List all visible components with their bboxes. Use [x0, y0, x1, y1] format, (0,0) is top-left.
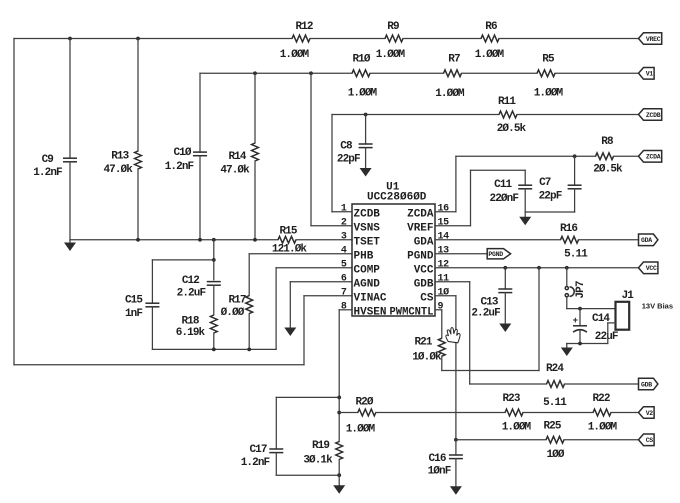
svg-text:1ØnF: 1ØnF: [428, 466, 451, 478]
wire AGND drop: [289, 282, 291, 328]
svg-text:ZCDA: ZCDA: [646, 154, 661, 161]
wire VSNS pin row: [311, 225, 352, 227]
svg-text:R25: R25: [543, 421, 561, 433]
svg-text:C1Ø: C1Ø: [173, 147, 191, 159]
svg-text:JP7: JP7: [575, 281, 587, 298]
net flag V1: [639, 68, 655, 80]
svg-text:PGND: PGND: [407, 251, 434, 263]
svg-text:GDB: GDB: [641, 381, 652, 388]
wire ZCDB row left: [332, 114, 499, 116]
svg-text:14: 14: [438, 232, 450, 243]
wire GDB row right: [565, 383, 639, 385]
junction C14 bottom: [578, 342, 582, 346]
junction C17 top link: [337, 396, 341, 400]
wire R21 top lead: [441, 310, 443, 338]
capacitor C10: [165, 147, 207, 173]
resistor R6: [475, 21, 505, 61]
svg-text:1: 1: [341, 204, 347, 215]
wire CS row right: [564, 439, 639, 441]
svg-text:GDB: GDB: [414, 279, 434, 291]
resistor R22: [588, 393, 618, 434]
wire VINAC pin row: [304, 295, 352, 297]
svg-text:2Ø.5k: 2Ø.5k: [593, 164, 623, 176]
wire C10 top lead: [199, 73, 201, 152]
wire VREC row R6-flag: [499, 38, 639, 40]
wire GDB drop: [469, 282, 471, 384]
svg-text:1.ØØM: 1.ØØM: [475, 49, 505, 61]
svg-text:2: 2: [341, 218, 347, 229]
svg-text:VREC: VREC: [646, 36, 661, 43]
svg-text:R6: R6: [485, 21, 497, 33]
wire ZCDA row right: [614, 155, 639, 157]
net flag GDB: [639, 378, 658, 390]
wire ZCDA pin stub: [435, 211, 456, 213]
resistor R15: [272, 226, 308, 256]
svg-text:C9: C9: [42, 154, 54, 166]
wire C9 top lead: [69, 39, 71, 159]
wire PWMCNTL pin stub: [435, 309, 442, 311]
resistor R11: [497, 96, 527, 135]
wire C15 top lead: [151, 260, 153, 303]
svg-text:1.ØØM: 1.ØØM: [280, 49, 310, 61]
ground below C11: [519, 212, 531, 225]
svg-text:1.ØØM: 1.ØØM: [376, 49, 406, 61]
svg-text:ZCDB: ZCDB: [354, 209, 381, 221]
wire V2 row R20 segment: [339, 412, 358, 414]
svg-text:5.11: 5.11: [564, 249, 588, 261]
svg-text:GDA: GDA: [641, 237, 652, 244]
svg-text:2Ø.5k: 2Ø.5k: [497, 123, 527, 135]
resistor R23: [502, 393, 532, 434]
wire C10 bottom lead: [199, 156, 201, 240]
junction R14 bottom: [253, 238, 257, 242]
svg-text:C16: C16: [428, 453, 445, 465]
svg-text:VINAC: VINAC: [354, 293, 387, 305]
ground AGND: [284, 328, 296, 337]
wire HVSEN drop upper: [338, 310, 340, 442]
svg-text:TSET: TSET: [354, 237, 381, 249]
wire COMP bottom row: [152, 348, 276, 350]
junction C12 branch top: [212, 238, 216, 242]
capacitor C13: [471, 289, 512, 320]
wire GDB pin stub: [435, 281, 470, 283]
svg-text:11: 11: [438, 274, 450, 285]
wire VREF top link: [471, 169, 526, 171]
resistor R9: [376, 21, 406, 61]
svg-text:J1: J1: [622, 290, 635, 302]
svg-text:47.Øk: 47.Øk: [103, 164, 133, 176]
wire C14 bottom lead: [579, 331, 581, 344]
resistor R16: [560, 223, 588, 261]
svg-text:R7: R7: [448, 54, 460, 66]
wire C14 top lead: [579, 309, 581, 326]
junction C9 top: [68, 37, 72, 41]
wire C14 bottom link: [567, 343, 608, 345]
svg-text:R21: R21: [414, 337, 432, 349]
svg-text:VCC: VCC: [646, 265, 657, 272]
svg-text:Ø.ØØ: Ø.ØØ: [221, 307, 245, 319]
svg-text:R22: R22: [592, 393, 609, 405]
svg-text:5.11: 5.11: [543, 397, 567, 409]
capacitor C9: [33, 154, 77, 179]
svg-text:R24: R24: [546, 363, 564, 375]
wire V2 row R23-R22: [523, 412, 593, 414]
svg-text:1.ØØM: 1.ØØM: [435, 88, 465, 100]
svg-text:R19: R19: [312, 440, 329, 452]
net flag ZCDA: [639, 151, 662, 163]
wire VREC row R9-R6: [403, 38, 481, 40]
capacitor C8: [337, 141, 373, 166]
wire R17 bottom lead: [248, 314, 250, 350]
ground below R19: [333, 475, 345, 494]
svg-text:22uF: 22uF: [595, 331, 618, 343]
connector J1: [616, 290, 635, 330]
svg-text:1.ØØM: 1.ØØM: [534, 88, 564, 100]
junction R13 top: [136, 37, 140, 41]
svg-text:1.ØØM: 1.ØØM: [502, 422, 532, 434]
capacitor C14 (polarized): [573, 313, 618, 343]
wire ZCDA riser: [455, 156, 457, 212]
wire COMP riser: [275, 268, 277, 350]
svg-text:R12: R12: [295, 21, 312, 33]
junction C13 top: [503, 266, 507, 270]
resistor R17: [221, 295, 253, 320]
svg-text:R9: R9: [387, 21, 399, 33]
wire R18 bottom lead: [213, 333, 215, 349]
wire CS row left: [456, 439, 546, 441]
junction R21 pullup top: [537, 266, 541, 270]
svg-text:1.2nF: 1.2nF: [33, 167, 62, 179]
wire C11 bottom lead: [524, 189, 526, 212]
wire R21 bottom lead: [441, 356, 443, 370]
svg-text:1.2nF: 1.2nF: [241, 457, 270, 469]
wire ground row: [70, 239, 278, 241]
svg-text:2.2uF: 2.2uF: [471, 308, 500, 320]
svg-text:5: 5: [341, 260, 347, 271]
net flag PGND: [487, 249, 510, 259]
svg-text:22pF: 22pF: [539, 190, 562, 202]
wire C15 top link: [152, 259, 213, 261]
svg-text:V2: V2: [646, 410, 654, 417]
svg-text:R17: R17: [228, 295, 245, 307]
wire C17 bottom lead: [275, 453, 277, 476]
wire C7 top lead: [574, 156, 576, 185]
wire V1 row R7-R5: [462, 72, 538, 74]
junction C7 top: [573, 154, 577, 158]
svg-text:R2Ø: R2Ø: [355, 397, 373, 409]
wire C8 branch: [365, 115, 367, 145]
wire R13 top lead: [137, 39, 139, 152]
svg-text:CS: CS: [420, 293, 434, 305]
svg-text:C12: C12: [182, 275, 199, 287]
capacitor C7: [539, 177, 582, 202]
wire CS pin stub: [435, 295, 456, 297]
wire VSNS riser: [310, 73, 312, 226]
svg-text:R16: R16: [560, 223, 577, 235]
svg-text:VREF: VREF: [407, 223, 433, 235]
wire R13 bottom lead: [137, 169, 139, 240]
wire C17 bottom link: [276, 474, 339, 476]
wire COMP pin row: [276, 267, 352, 269]
wire R14 top lead: [254, 73, 256, 143]
svg-text:8: 8: [341, 302, 347, 313]
svg-text:R18: R18: [181, 316, 199, 328]
wire VINAC riser: [303, 296, 305, 365]
svg-text:4: 4: [341, 246, 347, 257]
svg-text:9: 9: [438, 302, 444, 313]
resistor R19: [303, 440, 342, 467]
wire ZCDB riser: [331, 115, 333, 212]
svg-text:PWMCNTL: PWMCNTL: [390, 307, 434, 319]
junction R18 bottom: [212, 348, 216, 352]
svg-text:R13: R13: [111, 151, 129, 163]
svg-text:3Ø.1k: 3Ø.1k: [303, 455, 333, 467]
svg-text:C8: C8: [340, 141, 353, 153]
wire VREF riser: [470, 170, 472, 226]
resistor R25: [543, 421, 564, 462]
svg-text:3: 3: [341, 232, 347, 243]
wire ZCDA row left: [456, 155, 596, 157]
wire VREC row R12-R9: [310, 38, 385, 40]
wire C15 bottom lead: [151, 307, 153, 350]
svg-text:AGND: AGND: [354, 279, 381, 291]
net flag GDA: [639, 234, 658, 246]
resistor R14: [220, 143, 258, 176]
net flag CS: [639, 434, 655, 446]
svg-text:2.2uF: 2.2uF: [177, 287, 206, 299]
svg-text:6.19k: 6.19k: [176, 327, 206, 339]
wire R17 top lead: [248, 254, 250, 296]
resistor R8: [593, 136, 623, 176]
wire PGND pin row: [435, 253, 487, 255]
wire R19 bottom lead: [338, 460, 340, 476]
svg-text:R15: R15: [279, 226, 297, 238]
junction R20 left: [337, 411, 341, 415]
junction JP7 top: [565, 266, 569, 270]
wire VREF pin row: [435, 225, 471, 227]
wire J1 pin2 stub: [608, 322, 616, 324]
ground below C9: [64, 240, 76, 251]
capacitor C17: [241, 444, 284, 469]
ground 13V bias ground: [561, 344, 573, 357]
net flag VCC: [639, 262, 658, 274]
wire R21 pullup riser: [538, 268, 540, 371]
wire JP7 top lead: [566, 268, 568, 286]
svg-text:R11: R11: [498, 96, 516, 108]
svg-text:PHB: PHB: [354, 251, 374, 263]
wire V1 row left segment: [200, 72, 352, 74]
svg-text:1Ø.Øk: 1Ø.Øk: [412, 352, 442, 364]
svg-text:V1: V1: [646, 71, 654, 78]
wire C7 bottom lead: [574, 189, 576, 212]
svg-text:R5: R5: [542, 54, 555, 66]
junction C14 top: [578, 307, 582, 311]
junction C15 link: [212, 258, 216, 262]
svg-text:ZCDB: ZCDB: [646, 112, 661, 119]
svg-text:VCC: VCC: [414, 265, 434, 277]
junction R19 bottom: [337, 473, 341, 477]
capacitor C15: [125, 295, 159, 321]
svg-text:13: 13: [438, 246, 450, 257]
resistor R5: [534, 54, 564, 100]
svg-text:16: 16: [438, 204, 450, 215]
wire GDA row right: [579, 239, 639, 241]
capacitor C16: [428, 453, 463, 478]
wire R14 bottom lead: [254, 161, 256, 240]
wire C12-R18 link: [213, 285, 215, 315]
op-amp U1 UCC28060D: [341, 182, 449, 319]
svg-text:+: +: [573, 316, 578, 326]
jumper JP7: [565, 281, 587, 298]
junction VSNS riser top: [309, 71, 313, 75]
net flag V2: [639, 407, 655, 419]
svg-text:HVSEN: HVSEN: [354, 307, 387, 319]
wire VREC row left segment: [14, 38, 292, 40]
junction CS node: [454, 438, 458, 442]
svg-text:R8: R8: [601, 136, 614, 148]
resistor R13: [103, 151, 141, 177]
wire TSET pin row: [296, 239, 352, 241]
svg-text:C15: C15: [125, 295, 143, 307]
wire HVSEN pin row: [339, 309, 352, 311]
svg-text:COMP: COMP: [354, 265, 381, 277]
svg-text:7: 7: [341, 288, 347, 299]
wire V2 row R20-R23: [376, 412, 505, 414]
wire GDB row left: [470, 383, 547, 385]
svg-text:1.ØØM: 1.ØØM: [348, 88, 378, 100]
junction R14 top: [253, 71, 257, 75]
wire ZCDB pin stub: [332, 211, 352, 213]
wire C13 top lead: [504, 268, 506, 289]
svg-text:12: 12: [438, 260, 450, 271]
svg-text:R23: R23: [502, 393, 520, 405]
svg-text:VSNS: VSNS: [354, 223, 381, 235]
svg-text:R14: R14: [228, 151, 246, 163]
svg-text:C7: C7: [539, 177, 551, 189]
hand cursor: [446, 328, 460, 343]
svg-text:13V Bias: 13V Bias: [642, 301, 673, 310]
resistor R12: [280, 21, 313, 61]
wire VCC row: [435, 267, 639, 269]
svg-text:1Ø: 1Ø: [438, 287, 450, 299]
svg-text:GDA: GDA: [414, 237, 434, 249]
wire V1 row R5-flag: [555, 72, 639, 74]
wire R21 bottom link: [442, 370, 539, 372]
resistor R20: [346, 397, 376, 436]
svg-text:15: 15: [438, 218, 450, 229]
svg-text:22ØnF: 22ØnF: [490, 193, 519, 205]
svg-text:1nF: 1nF: [125, 308, 142, 320]
svg-text:47.Øk: 47.Øk: [220, 164, 250, 176]
wire AGND pin row: [290, 281, 352, 283]
ground below C16: [450, 459, 462, 495]
wire GDA row left: [435, 239, 561, 241]
wire C16 top lead: [455, 440, 457, 455]
capacitor C11: [490, 179, 533, 205]
ground below C13: [499, 293, 511, 332]
svg-text:C17: C17: [249, 444, 266, 456]
wire C17 top link: [276, 396, 339, 398]
resistor R10: [348, 54, 378, 100]
wire C12 branch upper: [213, 240, 215, 280]
ground below C8: [360, 148, 372, 177]
wire JP7-J1 link: [567, 308, 616, 310]
junction R17 bottom: [247, 348, 251, 352]
svg-text:UCC28Ø6ØD: UCC28Ø6ØD: [367, 191, 427, 203]
wire PHB pin row: [249, 253, 352, 255]
svg-text:22pF: 22pF: [337, 154, 360, 166]
wire C11 top lead: [524, 170, 526, 185]
wire J1 pin2 drop: [607, 323, 609, 344]
resistor R18: [176, 315, 217, 339]
svg-text:1.2nF: 1.2nF: [165, 161, 194, 173]
resistor R24: [543, 363, 567, 409]
wire CS drop: [455, 296, 457, 440]
wire JP7 bottom lead: [566, 297, 568, 308]
resistor R7: [435, 54, 465, 101]
svg-text:ZCDA: ZCDA: [407, 209, 434, 221]
wire C9 bottom lead: [69, 162, 71, 240]
capacitor C12: [177, 275, 221, 299]
svg-text:C11: C11: [494, 179, 512, 191]
wire left bus vertical: [13, 39, 15, 365]
net flag ZCDB: [639, 109, 662, 121]
svg-text:1ØØ: 1ØØ: [546, 449, 564, 461]
svg-text:6: 6: [341, 274, 347, 285]
wire V1 row R10-R7: [370, 72, 444, 74]
net flag VREC: [639, 33, 662, 45]
wire C17 top lead: [275, 397, 277, 449]
wire C11-C7 ground link: [525, 211, 574, 213]
svg-text:CS: CS: [646, 437, 654, 444]
junction C10 bottom: [198, 238, 202, 242]
wire bottom bus: [14, 364, 304, 366]
wire ZCDB row right: [517, 114, 639, 116]
junction R13 bottom: [136, 238, 140, 242]
resistor R21: [412, 337, 445, 364]
svg-text:1.ØØM: 1.ØØM: [346, 424, 376, 436]
svg-text:1.ØØM: 1.ØØM: [588, 422, 618, 434]
junction C8 top: [364, 113, 368, 117]
svg-text:R1Ø: R1Ø: [352, 54, 370, 66]
wire V2 row R22-flag: [611, 412, 639, 414]
svg-text:PGND: PGND: [488, 251, 503, 258]
